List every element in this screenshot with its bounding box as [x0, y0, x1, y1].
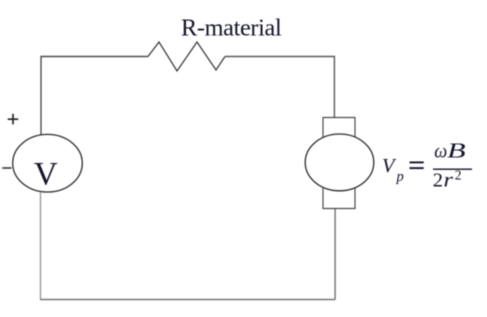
minus sign [2, 167, 11, 169]
svg-text:V: V [382, 155, 397, 177]
motor bottom brush rectangle [323, 188, 355, 209]
motor top brush rectangle [323, 118, 355, 138]
svg-text:B: B [447, 140, 466, 163]
wire: bottom horizontal [40, 299, 335, 301]
formula Vp = wB / 2r^2 [382, 140, 472, 192]
voltmeter V source ellipse [13, 134, 83, 192]
fraction bar [433, 168, 472, 170]
equals [410, 162, 424, 168]
svg-text:p: p [396, 169, 404, 185]
svg-text:V: V [34, 157, 58, 193]
wire: lower-right vertical [334, 208, 336, 300]
resistor R-material zigzag [148, 42, 225, 71]
svg-text:ω: ω [434, 141, 447, 163]
svg-text:r: r [444, 170, 455, 192]
motor body ellipse U1 [305, 134, 374, 191]
svg-text:2: 2 [455, 168, 462, 183]
svg-text:R-material: R-material [181, 14, 282, 41]
wire: resistor to top-right corner and down to motor top [225, 57, 334, 118]
svg-text:2: 2 [433, 170, 443, 192]
plus sign [8, 114, 19, 125]
wire: lower-left vertical [40, 192, 42, 300]
wire: top-left horizontal segment to resistor [41, 57, 148, 136]
